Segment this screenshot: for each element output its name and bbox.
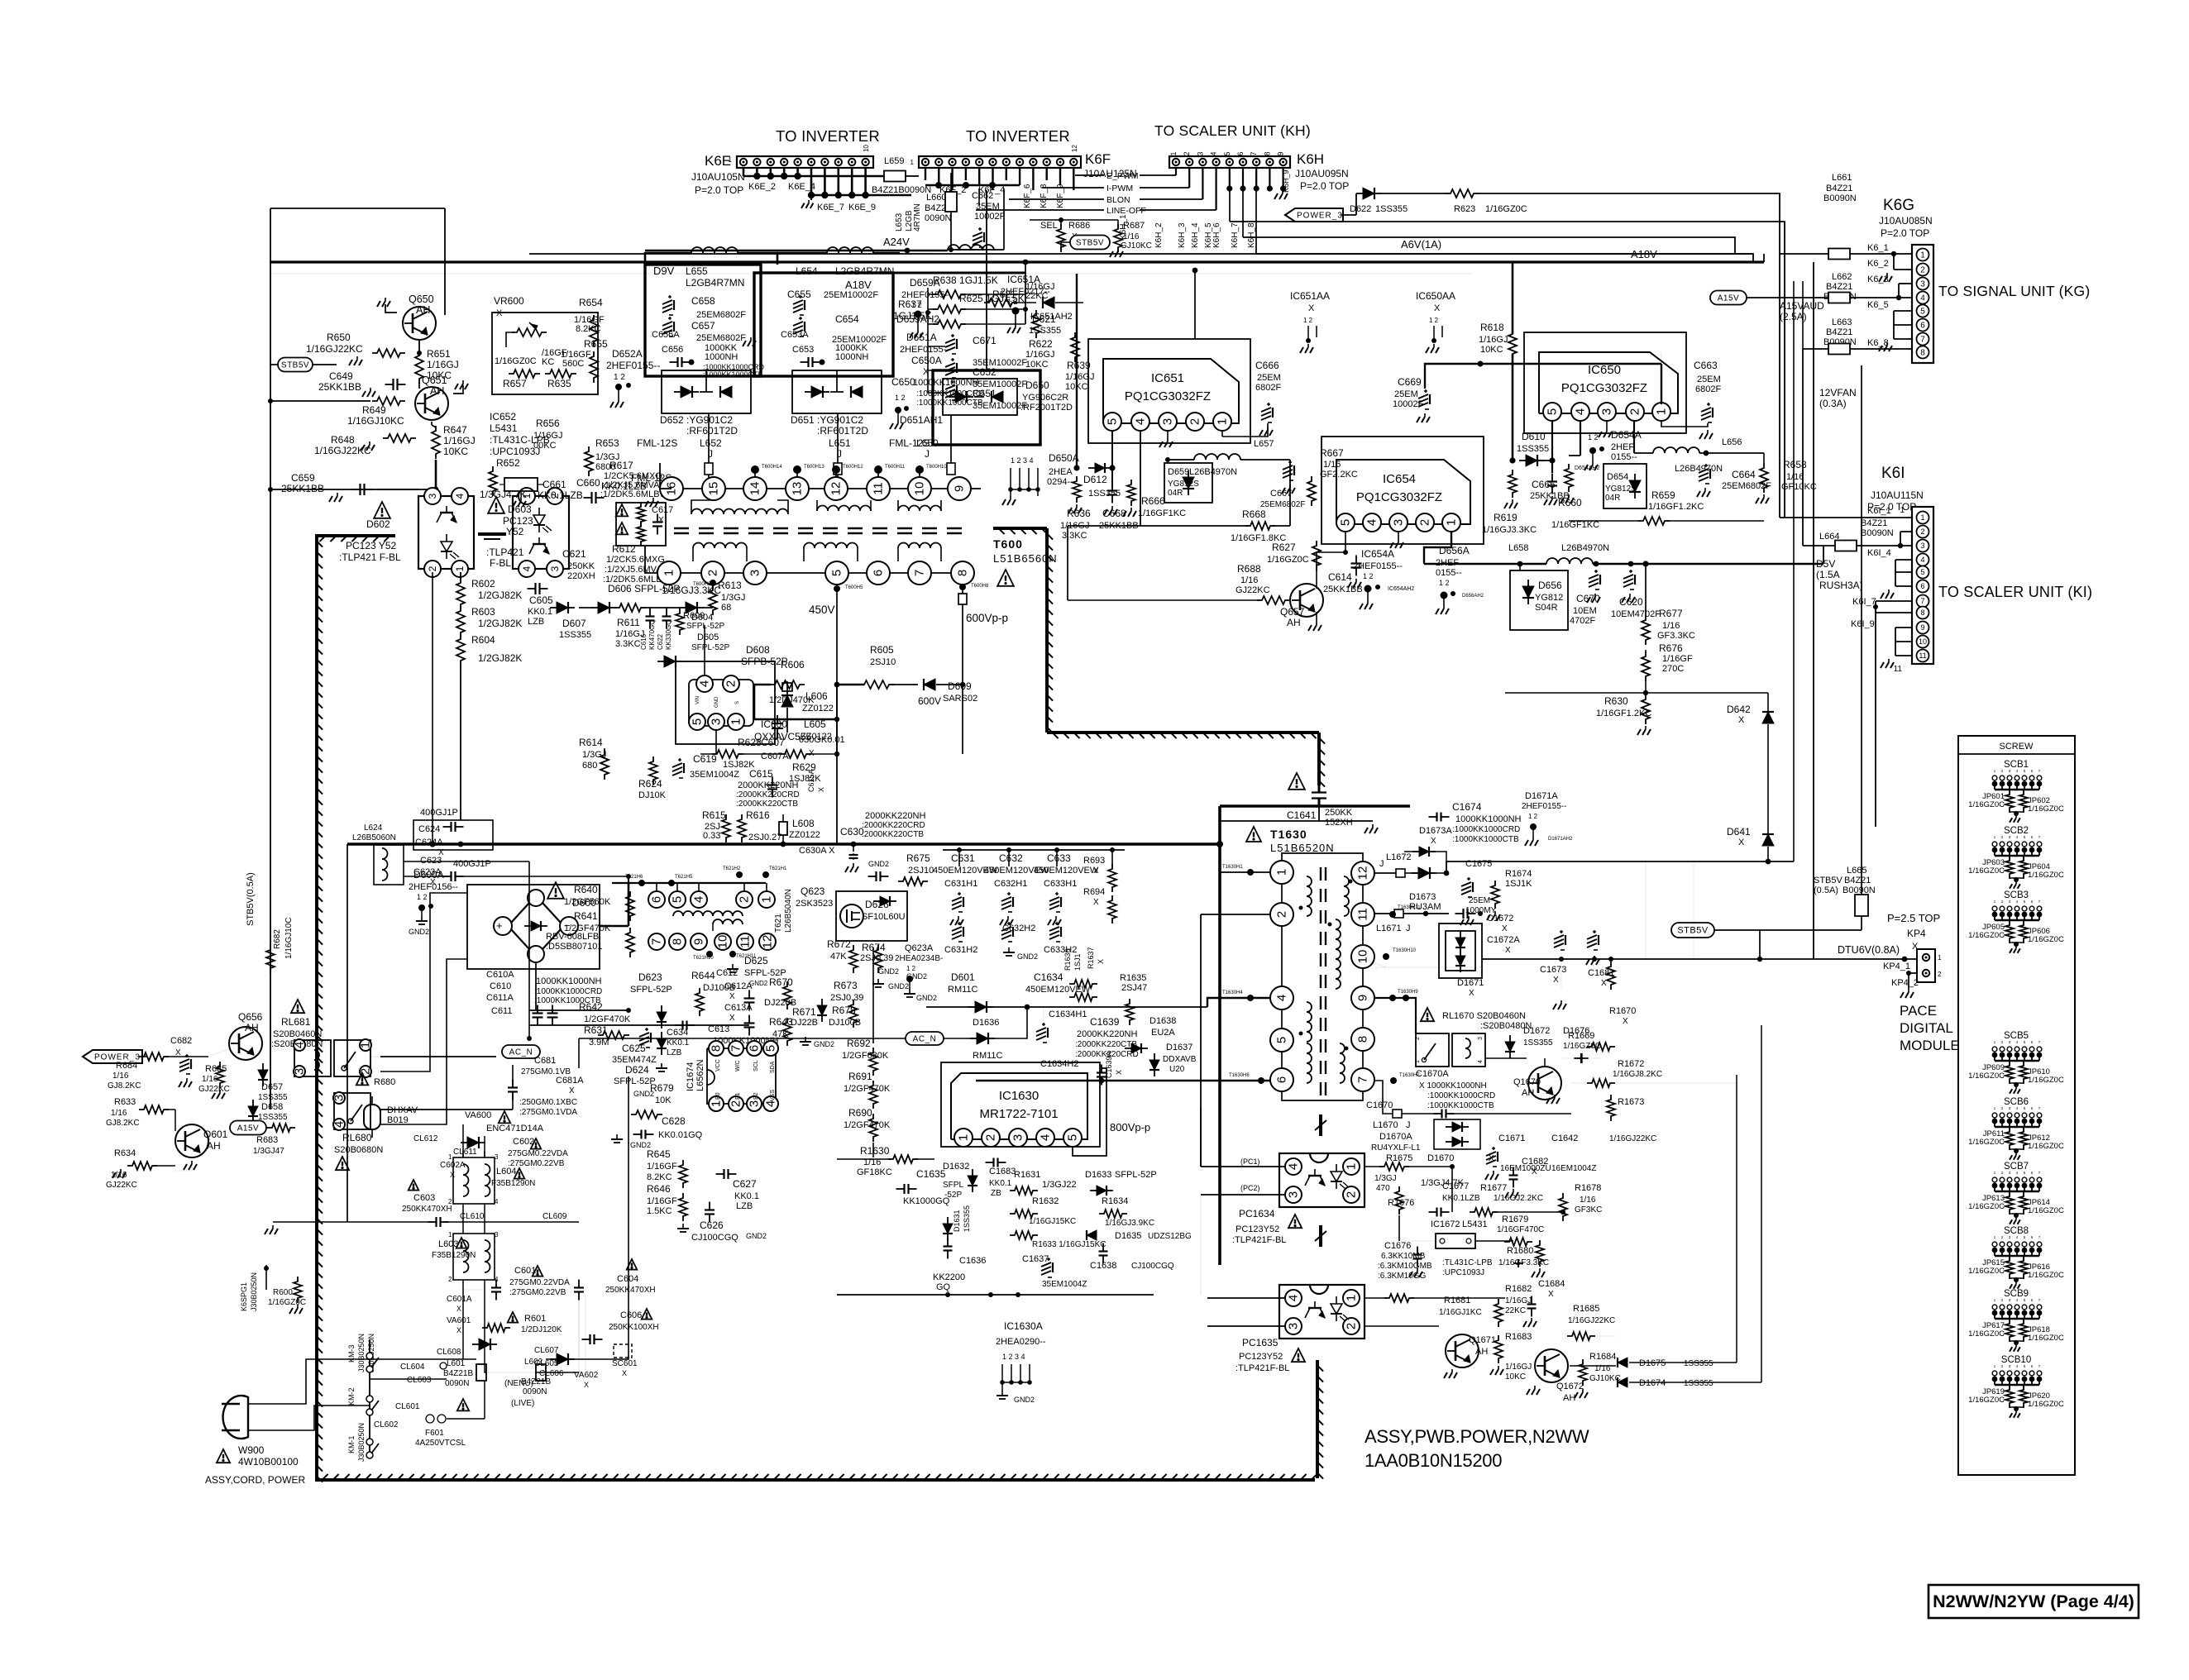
svg-text:R603: R603 [471, 606, 495, 618]
svg-text:1: 1 [1920, 251, 1925, 260]
svg-text:3.9M: 3.9M [589, 1038, 609, 1048]
wire DTU6V row junctions [1559, 957, 1564, 962]
svg-text:1/2GF680K: 1/2GF680K [842, 1051, 889, 1061]
oval AC_N mid [502, 1045, 540, 1058]
svg-text:R618: R618 [1480, 322, 1504, 333]
svg-text:R616: R616 [746, 809, 770, 821]
svg-text:L653: L653 [895, 212, 904, 231]
svg-text:C631: C631 [951, 852, 975, 864]
svg-text:STB5V: STB5V [1076, 238, 1104, 247]
svg-text:D1670A: D1670A [1379, 1132, 1412, 1142]
svg-text:R679: R679 [650, 1082, 674, 1094]
svg-text:R1669: R1669 [1568, 1031, 1594, 1041]
svg-text:KM-2: KM-2 [347, 1387, 356, 1406]
svg-text:(PC1): (PC1) [1240, 1157, 1260, 1166]
svg-text:X: X [569, 1086, 575, 1095]
svg-text:X: X [817, 787, 825, 792]
svg-text::RF2001T2D: :RF2001T2D [1020, 403, 1073, 413]
svg-text:1/16GZ0C: 1/16GZ0C [1968, 1396, 2005, 1405]
capacitors C1673 C1681 [1554, 935, 1564, 939]
svg-text:3: 3 [293, 1068, 307, 1075]
svg-text:1: 1 [1345, 1163, 1359, 1170]
wire filter spine [528, 861, 530, 1038]
svg-text:L624: L624 [364, 823, 383, 833]
svg-text:1/16GF1KC: 1/16GF1KC [1138, 508, 1186, 518]
svg-text:C1639: C1639 [1090, 1016, 1120, 1028]
resistor R668 [1245, 522, 1275, 530]
svg-text:IC650AA: IC650AA [1416, 290, 1455, 302]
svg-text:L6562N: L6562N [695, 1059, 705, 1091]
svg-text:C656A: C656A [652, 330, 680, 340]
svg-text:1/16GF: 1/16GF [647, 1162, 677, 1172]
net oval STB5V mid-right [1671, 923, 1714, 938]
svg-text:4: 4 [1920, 294, 1925, 303]
svg-text:X: X [1115, 1070, 1123, 1075]
svg-text:D652A: D652A [612, 348, 643, 360]
wire D9V line from L655 to right [759, 252, 777, 255]
svg-text:TO INVERTER: TO INVERTER [966, 127, 1070, 145]
svg-text:R1630: R1630 [860, 1145, 890, 1157]
svg-text:(LIVE): (LIVE) [511, 1399, 534, 1408]
svg-text:IC651AA: IC651AA [1290, 290, 1330, 302]
capacitor C655 [793, 300, 803, 304]
svg-text::1000KK1000CRD: :1000KK1000CRD [1427, 1091, 1495, 1100]
svg-text:8: 8 [1920, 609, 1924, 617]
svg-text:X: X [430, 878, 436, 887]
svg-text:25KK1BB: 25KK1BB [281, 483, 324, 494]
svg-text:3: 3 [1920, 542, 1924, 550]
svg-text:3: 3 [1161, 418, 1175, 425]
wire Q650 emitter gnd [385, 304, 397, 313]
svg-text:1/16GZ0C: 1/16GZ0C [495, 356, 537, 366]
resistor R601 [508, 1312, 519, 1323]
svg-text:K6H_4: K6H_4 [1191, 222, 1200, 248]
wire 600V right vertical [962, 631, 963, 754]
svg-text:1SS355: 1SS355 [1684, 1359, 1713, 1368]
svg-text:R627: R627 [1272, 542, 1296, 553]
svg-text:630GK0.01: 630GK0.01 [799, 735, 845, 745]
svg-text:CL601: CL601 [395, 1402, 420, 1411]
svg-text:X: X [729, 992, 735, 1001]
svg-text:14: 14 [748, 482, 762, 496]
svg-text:KC: KC [542, 357, 554, 367]
svg-text:GF18KC: GF18KC [857, 1167, 892, 1177]
svg-text:R630: R630 [1604, 695, 1628, 707]
svg-text:C667: C667 [1270, 489, 1292, 499]
svg-text:K6_2: K6_2 [1867, 259, 1889, 269]
svg-text:3: 3 [549, 566, 561, 571]
svg-text:AH: AH [245, 1022, 259, 1033]
svg-text:1: 1 [1275, 869, 1289, 876]
svg-text:2: 2 [1920, 265, 1925, 274]
svg-text:C1641: C1641 [1287, 809, 1317, 821]
svg-text:A18V: A18V [845, 279, 872, 291]
wire Q656 collector up [245, 1017, 246, 1027]
wires plug to relays [248, 1359, 370, 1404]
IC654 body [1336, 460, 1470, 524]
wire row to T1630 pin4 [1154, 1006, 1207, 1008]
svg-text:AH: AH [207, 1140, 221, 1152]
svg-text:AC_N: AC_N [509, 1048, 533, 1057]
svg-text:VA601: VA601 [447, 1316, 471, 1325]
svg-text:YG812S: YG812S [1605, 484, 1637, 494]
svg-text:35EM10002F: 35EM10002F [973, 401, 1027, 411]
svg-text:GND2: GND2 [916, 994, 937, 1002]
svg-text:13: 13 [791, 482, 805, 496]
svg-text:1/16: 1/16 [1580, 1196, 1596, 1205]
wire A24V to K6F pins [956, 249, 1004, 251]
svg-text:R1682: R1682 [1505, 1284, 1532, 1294]
svg-text:C1671: C1671 [1498, 1134, 1525, 1143]
svg-text:C607: C607 [761, 737, 785, 748]
svg-text:PC1635: PC1635 [1242, 1337, 1279, 1348]
wire T1630 pin11 row [1374, 913, 1391, 914]
label D600 [547, 882, 564, 899]
svg-text:A15VAUD: A15VAUD [1780, 300, 1824, 312]
svg-text:AC_N: AC_N [913, 1034, 937, 1043]
T600 pin stubs [710, 580, 716, 586]
svg-text:1: 1 [1920, 513, 1924, 522]
wire D622-R623 [1375, 193, 1449, 194]
diodes D1670 [1434, 1119, 1480, 1149]
svg-text:4: 4 [495, 1198, 499, 1205]
svg-text:2HEF0155--: 2HEF0155-- [1522, 802, 1566, 811]
svg-text:RU4YXLF-L1: RU4YXLF-L1 [1371, 1143, 1421, 1153]
capacitor C659 [352, 489, 361, 490]
IC651 pins [1103, 413, 1121, 431]
svg-text:LZB: LZB [667, 1048, 682, 1057]
component DHXAV B019 [356, 1104, 358, 1105]
potentiometer VR600 [512, 328, 547, 336]
T600 bottom rail [657, 572, 658, 574]
svg-text:5: 5 [1275, 1037, 1289, 1043]
ground K6E pin6 [810, 195, 812, 200]
svg-text:R623: R623 [1454, 204, 1475, 214]
resistor R649 [372, 397, 405, 405]
wire R676 down [1645, 681, 1647, 693]
svg-text:C632H1: C632H1 [994, 879, 1027, 889]
coupler link mark [478, 532, 506, 536]
svg-text:C634: C634 [667, 1028, 688, 1038]
svg-text:7: 7 [729, 1045, 743, 1052]
svg-text:C611A: C611A [486, 993, 514, 1003]
svg-text:C601A: C601A [447, 1295, 472, 1304]
label D602 [374, 502, 390, 518]
T600 windings bottom [693, 543, 747, 549]
svg-text:4: 4 [692, 896, 706, 903]
svg-text:U20: U20 [1169, 1065, 1185, 1074]
wire T1630 pin12 row [1374, 872, 1396, 874]
svg-text:1/16GJ: 1/16GJ [427, 359, 459, 370]
svg-text:C631H2: C631H2 [944, 945, 977, 955]
svg-text:R671: R671 [792, 1006, 816, 1018]
svg-text:X: X [1548, 1290, 1554, 1299]
svg-text:YG906C2R: YG906C2R [1022, 393, 1068, 403]
svg-text:DTU6V(0.8A): DTU6V(0.8A) [1838, 944, 1900, 956]
svg-text:GND2: GND2 [1017, 952, 1038, 961]
svg-text:1/16GJ: 1/16GJ [1479, 335, 1508, 345]
svg-text:R606: R606 [781, 659, 805, 671]
svg-text:J10AU095N: J10AU095N [1295, 168, 1349, 179]
svg-text:1/16GF: 1/16GF [647, 1196, 677, 1206]
transformer T600 bottom pins [657, 561, 681, 585]
svg-text:J: J [1379, 859, 1384, 869]
diode D657 [258, 1070, 268, 1080]
svg-text:1SS355: 1SS355 [1517, 444, 1549, 454]
svg-text:R684: R684 [116, 1061, 137, 1071]
svg-text:A6V(1A): A6V(1A) [1401, 238, 1441, 251]
svg-text:B4Z21: B4Z21 [1826, 327, 1852, 337]
svg-text:3: 3 [427, 493, 438, 499]
svg-text:1 2: 1 2 [1429, 317, 1439, 324]
svg-text:C663: C663 [1694, 360, 1718, 371]
svg-text:6: 6 [1236, 151, 1245, 155]
wire A15V to RL680 [266, 1127, 270, 1129]
svg-text:N2WW/N2YW (Page 4/4): N2WW/N2YW (Page 4/4) [1933, 1592, 2134, 1611]
svg-text:R682: R682 [273, 929, 282, 949]
svg-text::YG901C2: :YG901C2 [817, 414, 863, 426]
wires K6E pins 6-10 bus [810, 167, 813, 195]
optocoupler D603 PC123Y52 [513, 496, 569, 569]
svg-text:D659A: D659A [910, 277, 940, 289]
svg-text:IC1630A: IC1630A [1004, 1320, 1043, 1332]
svg-text:R633: R633 [114, 1097, 136, 1107]
svg-text:C681A: C681A [556, 1076, 584, 1086]
svg-text:R651: R651 [427, 348, 451, 360]
svg-text:K6E_9: K6E_9 [848, 203, 876, 212]
capacitor C605 [528, 588, 536, 589]
svg-text:L2GB4R7MN: L2GB4R7MN [835, 265, 894, 277]
svg-text:600V: 600V [918, 695, 941, 707]
svg-text:CL606: CL606 [539, 1369, 564, 1378]
svg-text:1: 1 [710, 1100, 724, 1107]
svg-text:LZB: LZB [736, 1201, 753, 1211]
svg-text:IC1674: IC1674 [686, 1062, 695, 1091]
svg-text:SFPL-52P: SFPL-52P [691, 643, 729, 652]
svg-text:9: 9 [1277, 151, 1285, 155]
isolation boundary T600 [993, 527, 1047, 530]
svg-text:C657: C657 [691, 320, 715, 332]
T621 markers [638, 880, 645, 886]
wire K6I pin1 [1780, 517, 1912, 518]
svg-text:C615: C615 [749, 768, 773, 780]
svg-text:T621H2: T621H2 [723, 866, 741, 871]
svg-text:4: 4 [1920, 556, 1924, 564]
svg-text:1/16GF: 1/16GF [1662, 654, 1693, 664]
svg-text:11: 11 [738, 935, 753, 948]
svg-text:10002F: 10002F [974, 212, 1006, 222]
svg-text:L662: L662 [1832, 272, 1852, 282]
svg-text:K6I_7: K6I_7 [1852, 597, 1876, 607]
svg-text:2SJ0.39: 2SJ0.39 [830, 993, 863, 1003]
svg-text:400GJ1P: 400GJ1P [420, 808, 458, 818]
svg-text:L654: L654 [796, 265, 818, 277]
svg-text:1: 1 [1415, 1060, 1421, 1063]
svg-text:B4Z21B0090N: B4Z21B0090N [872, 185, 931, 195]
svg-text:D650A: D650A [1049, 452, 1079, 464]
svg-text:E_PWM: E_PWM [1106, 171, 1139, 181]
svg-text:7: 7 [1356, 1076, 1370, 1083]
wire main B+ bus [347, 842, 1220, 846]
svg-text:C682: C682 [170, 1036, 192, 1046]
svg-text:S: S [735, 701, 740, 704]
svg-text:C630: C630 [840, 826, 864, 838]
svg-text:7: 7 [650, 938, 664, 945]
svg-text:Q651: Q651 [422, 375, 447, 386]
svg-text:K6E_7: K6E_7 [817, 203, 844, 212]
svg-text:1/2DJ470K: 1/2DJ470K [769, 695, 815, 705]
svg-text:1SS355: 1SS355 [258, 1113, 288, 1122]
wire Q1670 collector [1544, 1058, 1546, 1067]
svg-text:4: 4 [1275, 995, 1289, 1001]
resistor chain R602 R603 R604 [460, 572, 461, 579]
svg-text:X: X [1097, 959, 1105, 964]
svg-text:1 2: 1 2 [1588, 433, 1599, 441]
svg-text:2: 2 [1345, 1191, 1359, 1198]
svg-text:BLON: BLON [1106, 195, 1130, 205]
jumpers JP617/JP618 [2009, 1319, 2010, 1324]
wire K6F column to D650 box [986, 190, 987, 370]
svg-text:L657: L657 [1254, 439, 1274, 449]
wire Q601 base [165, 1109, 166, 1110]
svg-text:04R: 04R [1168, 489, 1183, 498]
svg-text:L603: L603 [438, 1239, 458, 1249]
svg-text:D654A: D654A [1611, 429, 1642, 441]
svg-text:R690: R690 [848, 1107, 872, 1119]
svg-text:D601: D601 [951, 971, 975, 983]
svg-text:0155--: 0155-- [1436, 568, 1462, 578]
svg-text:1/16GZ0C: 1/16GZ0C [2028, 804, 2064, 814]
svg-text:1/3GJ: 1/3GJ [1374, 1174, 1397, 1183]
svg-text:12: 12 [829, 482, 844, 496]
svg-text:CL607: CL607 [534, 1346, 559, 1355]
svg-text:RM11C: RM11C [948, 985, 978, 995]
svg-text:D656: D656 [1538, 580, 1562, 591]
transistor Q1671 [1446, 1334, 1479, 1367]
svg-text:R1679: R1679 [1502, 1215, 1528, 1224]
svg-text:1/16GJ1KC: 1/16GJ1KC [1439, 1308, 1482, 1317]
wire DTU6V [1482, 958, 1917, 960]
wire A15V to K6G pin4 [1741, 297, 1828, 298]
svg-text:X: X [923, 367, 930, 377]
svg-text:9: 9 [1920, 623, 1924, 632]
svg-text:1000KK1000NH: 1000KK1000NH [1455, 814, 1522, 824]
svg-text:KK0.1: KK0.1 [734, 1191, 759, 1201]
transistor Q650 [403, 307, 436, 340]
svg-text:L658: L658 [1508, 543, 1528, 553]
svg-text:L26B4970N: L26B4970N [1561, 543, 1609, 553]
svg-text:3: 3 [495, 1153, 499, 1161]
isolation bar mark between PC1634 PC1635 [1319, 1225, 1322, 1247]
svg-text:10EM: 10EM [1573, 606, 1597, 616]
svg-text:R638 1GJ1.5K: R638 1GJ1.5K [933, 274, 998, 286]
svg-text:10002F: 10002F [1393, 399, 1424, 409]
wire AC_N long left [579, 1038, 906, 1039]
svg-text:9: 9 [692, 938, 706, 945]
svg-text:275GM0.22VDA: 275GM0.22VDA [509, 1278, 570, 1287]
wire A18V right end down [1763, 254, 1765, 262]
svg-text:R655: R655 [584, 338, 608, 350]
wire POWER_3 to right [1341, 214, 1356, 216]
svg-text:1/16GZ0C: 1/16GZ0C [1485, 204, 1527, 214]
svg-text:25EM: 25EM [1394, 389, 1418, 399]
svg-text:SDA: SDA [770, 1061, 776, 1073]
capacitor C657 [662, 322, 672, 326]
resistor R613 [709, 585, 717, 615]
wire C631 row top [943, 849, 1125, 851]
capacitors C617 block [616, 503, 666, 546]
svg-text:8: 8 [956, 570, 970, 576]
wire C1670 row [1374, 1081, 1393, 1114]
svg-text:2: 2 [1345, 1323, 1359, 1329]
svg-text::2000KK220CTB: :2000KK220CTB [736, 799, 798, 809]
svg-text:2: 2 [448, 1276, 452, 1283]
svg-text:C1675: C1675 [1465, 859, 1492, 869]
wire right area verticals [1693, 861, 1694, 959]
inductor L665 [1855, 895, 1868, 916]
svg-text:1: 1 [359, 1042, 373, 1048]
wire bridge minus down [535, 962, 537, 1010]
svg-text:MODULE: MODULE [1900, 1038, 1960, 1053]
svg-text::D5SB807101: :D5SB807101 [546, 942, 603, 952]
svg-text:X: X [584, 1381, 589, 1389]
wire R623 right then down [1475, 193, 1780, 513]
resistor R635 [545, 370, 576, 378]
svg-text:R1680: R1680 [1507, 1246, 1533, 1256]
label D603 [488, 497, 504, 513]
svg-text:1SS355: 1SS355 [1523, 1038, 1553, 1048]
svg-text:STB5V: STB5V [281, 360, 309, 370]
svg-text:R615: R615 [702, 809, 726, 821]
svg-text:1SS355: 1SS355 [963, 1205, 971, 1232]
wire L603 to L601 [462, 1280, 464, 1359]
IC1630 pins [954, 1129, 973, 1147]
IC1630 body [951, 1073, 1087, 1139]
IC1674 body [707, 1048, 776, 1104]
svg-text:R639: R639 [1067, 360, 1091, 371]
svg-text:K6_3: K6_3 [1867, 274, 1889, 284]
svg-text:T600H11: T600H11 [885, 465, 906, 470]
svg-text:R1677: R1677 [1480, 1183, 1507, 1193]
svg-text:1/16GZ0C: 1/16GZ0C [2028, 1400, 2064, 1409]
svg-text:TO SIGNAL UNIT (KG): TO SIGNAL UNIT (KG) [1938, 283, 2090, 299]
svg-text:Q623A: Q623A [905, 943, 934, 953]
svg-text:K6G: K6G [1883, 197, 1914, 214]
svg-text:4: 4 [521, 566, 533, 571]
svg-text:3: 3 [1600, 408, 1614, 415]
svg-text:R604: R604 [471, 634, 495, 646]
svg-text:4: 4 [1365, 519, 1379, 526]
svg-text:680: 680 [582, 761, 597, 771]
T1630 windings left [1307, 876, 1312, 916]
svg-text:12VFAN: 12VFAN [1819, 387, 1857, 399]
svg-text:L659: L659 [884, 156, 904, 166]
svg-text:1AA0B10N15200: 1AA0B10N15200 [1365, 1450, 1502, 1471]
svg-text:D626: D626 [865, 899, 889, 910]
inductor L657 [1194, 454, 1240, 460]
svg-text:GF10KC: GF10KC [1781, 482, 1817, 492]
svg-text:KP4: KP4 [1907, 928, 1926, 939]
svg-text:R652: R652 [496, 457, 520, 469]
svg-text:K6E: K6E [705, 153, 731, 169]
svg-text:GND2: GND2 [906, 972, 927, 981]
svg-text:DHXAV: DHXAV [387, 1105, 418, 1115]
svg-text:TO SCALER UNIT (KI): TO SCALER UNIT (KI) [1938, 584, 2092, 600]
svg-text:C622: C622 [657, 633, 664, 650]
diode D656 box [1510, 570, 1568, 630]
warning triangle W900 [217, 1449, 230, 1463]
wire bus L654 row [806, 272, 1025, 274]
